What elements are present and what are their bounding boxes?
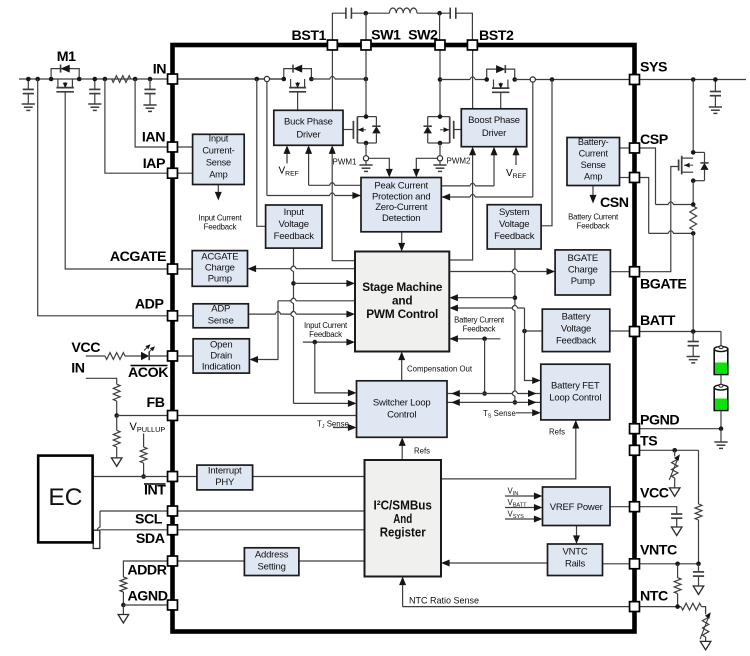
node PGND [719, 426, 724, 431]
wire SLC-BFLC line2 [447, 401, 541, 403]
wire VNTC rails to pin [603, 563, 631, 565]
resistor R-FB-top [113, 384, 120, 401]
svg-text:FB: FB [146, 395, 164, 411]
wire IN pullup source [86, 378, 117, 384]
node SW2 phase [438, 77, 443, 82]
resistor R-battery-sense [690, 206, 697, 230]
svg-text:Amp: Amp [584, 172, 602, 182]
node PWM1 [363, 156, 368, 161]
svg-text:NTC Ratio Sense: NTC Ratio Sense [409, 596, 479, 606]
wire SYS rail [515, 79, 746, 81]
wire battery link [720, 375, 722, 386]
svg-text:Battery FET: Battery FET [551, 381, 600, 392]
wire VREF power to VCC pin [610, 506, 630, 508]
op-amp U-state-machine [355, 252, 449, 352]
wire PWM2 control from state machine [449, 151, 472, 260]
svg-text:Peak Current: Peak Current [374, 181, 428, 192]
node SVF on refs line [513, 400, 518, 405]
capacitor C-IN2 [94, 79, 96, 89]
pin ACGATE [168, 264, 178, 274]
wire SW2 phase segment [440, 77, 487, 80]
pin AGND [168, 600, 178, 610]
resistor R-TS-div [695, 504, 702, 520]
node IN rail d [148, 77, 153, 82]
wire AGND drop [122, 605, 124, 615]
wire FET to sense resistor [692, 181, 694, 205]
wire NTC ratio sense [403, 606, 630, 608]
svg-text:IN: IN [71, 361, 84, 377]
thermistor RT-TS [674, 450, 676, 456]
pin TS [630, 445, 640, 455]
wire EC SDA [101, 529, 173, 531]
svg-text:Amp: Amp [209, 170, 227, 180]
wire IAP internal [173, 172, 193, 174]
wire IAN sense [135, 79, 172, 147]
pin BATT [630, 327, 640, 337]
wire TS sense arrow [516, 412, 537, 414]
wire cap to SW1 top node [351, 12, 389, 14]
wire cap to BST2 riser [456, 13, 473, 45]
resistor R-pullup [140, 447, 147, 463]
resistor R-NTC [681, 603, 701, 610]
transistor Q-boost-high [487, 69, 515, 79]
svg-text:Interrupt: Interrupt [208, 466, 242, 477]
svg-text:IAP: IAP [143, 156, 165, 172]
wire VCC to ACOK [86, 355, 105, 357]
pin BST1 [327, 40, 337, 50]
wire FB external [117, 415, 173, 417]
wire CSP internal [620, 147, 631, 149]
wire PWM1 to peak-current [369, 158, 390, 171]
svg-text:Boost Phase: Boost Phase [468, 115, 520, 126]
transistor M1 [51, 69, 79, 79]
node SYS cap [713, 77, 718, 82]
op-amp U-address-setting [244, 548, 299, 576]
wire R-pullup to INT [143, 463, 145, 477]
svg-text:Battery-: Battery- [578, 137, 609, 147]
svg-text:PWM Control: PWM Control [366, 307, 438, 321]
svg-text:CSN: CSN [600, 195, 629, 211]
wire inductor to BST2 cap [417, 12, 450, 14]
svg-text:Driver: Driver [296, 130, 320, 141]
svg-text:Rails: Rails [565, 559, 586, 570]
wire ACOK internal [173, 355, 194, 357]
EC stub tab [93, 530, 100, 548]
svg-text:Input: Input [284, 207, 305, 218]
wire BST2 riser internal [472, 50, 474, 109]
pin ADDR [168, 556, 178, 566]
svg-text:Charge: Charge [205, 263, 235, 274]
ground C-IN2 [88, 103, 101, 105]
svg-text:Input Current: Input Current [304, 321, 348, 330]
wire Vpullup stub [143, 434, 145, 448]
op-amp U-acgate-pump [192, 251, 247, 287]
wire TS network [639, 449, 699, 451]
ground NTC [700, 641, 711, 650]
wire buck gate riser [297, 92, 299, 111]
svg-text:SDA: SDA [136, 531, 165, 547]
wire IVF output [291, 248, 294, 403]
ground PWM2 [439, 161, 441, 165]
svg-text:Battery Current: Battery Current [454, 316, 505, 325]
wire CSP tap [639, 148, 656, 205]
wire BVF to SM [524, 308, 526, 331]
svg-text:ACOK: ACOK [128, 365, 169, 381]
wire BGATE CP output [610, 271, 630, 273]
pin SYS [630, 75, 640, 85]
svg-text:Feedback: Feedback [494, 231, 535, 242]
wire zero-cross sense [532, 82, 534, 197]
op-amp U-open-drain [193, 339, 249, 373]
pin PGND [630, 424, 640, 434]
wire ADDR resistor chain [123, 561, 172, 577]
ground C-IN3 [143, 104, 156, 106]
wire VSYS arrow [505, 518, 538, 520]
wire battery current feedback to SM [454, 338, 501, 340]
ground AGND [118, 615, 128, 624]
capacitor C-IN1 [27, 79, 29, 89]
svg-text:Sense: Sense [581, 160, 606, 170]
pin CSP [630, 143, 640, 153]
node bcf on line1 [482, 391, 487, 396]
thermistor RT-NTC [702, 615, 708, 637]
svg-text:Detection: Detection [382, 213, 420, 224]
resistor R-sense input [112, 76, 131, 83]
svg-text:Drain: Drain [210, 351, 232, 362]
svg-text:PWM1: PWM1 [333, 158, 358, 167]
resistor R-ADDR [120, 577, 127, 592]
op-amp U-switcher-loop [357, 381, 448, 438]
wire EC INT [93, 476, 173, 478]
pin INT [168, 472, 178, 482]
wire ACGATE internal [173, 268, 193, 270]
op-amp U-battery-current-sense [567, 138, 620, 186]
svg-text:Feedback: Feedback [309, 330, 342, 339]
wire input current feedback to SM [303, 341, 351, 343]
op-amp U-vref-power [543, 487, 611, 526]
wire NTC rail ext [639, 606, 681, 608]
wire sense to BATT [692, 233, 694, 331]
wire SVF branch to SM [454, 297, 515, 299]
svg-text:SW1: SW1 [371, 28, 401, 44]
node sense res bottom [691, 231, 696, 236]
wire INT internal a [173, 476, 197, 478]
svg-text:Protection and: Protection and [372, 191, 430, 202]
wire input current feedback to SLC [315, 342, 353, 393]
wire SDA internal [173, 529, 365, 531]
svg-text:Feedback: Feedback [274, 231, 315, 242]
node IAP tap [103, 77, 108, 82]
EC box [38, 456, 92, 543]
node battery current feedback [482, 337, 487, 342]
svg-text:Stage Machine: Stage Machine [362, 280, 443, 294]
svg-text:IAN: IAN [142, 130, 165, 146]
wire ADDR internal b [299, 560, 365, 562]
wire divider to VNTC [698, 520, 700, 564]
node IVF tap [254, 77, 259, 82]
wire SW1 phase segment [311, 76, 366, 79]
svg-text:ADDR: ADDR [127, 563, 166, 579]
svg-text:Setting: Setting [258, 562, 286, 573]
wire ADDR internal a [173, 560, 245, 562]
wire SYS to SVF [541, 80, 552, 226]
wire VNTC rails to I2C [445, 562, 547, 564]
wire VREF power to VNTC rails [576, 526, 578, 540]
node IN rail a [26, 77, 31, 82]
wire compensation out [401, 356, 403, 381]
wire PWM2 to peak-current [416, 158, 437, 171]
pin ACOK [168, 351, 178, 361]
node BVF tee [522, 329, 527, 334]
wire IVF riser [257, 79, 266, 226]
pin IAP [168, 168, 178, 178]
op-amp U-peak-current [361, 178, 441, 232]
svg-text:Switcher Loop: Switcher Loop [373, 398, 431, 409]
node input current feedback [313, 340, 318, 345]
wire IAN internal [173, 146, 193, 148]
svg-text:INT: INT [144, 483, 166, 499]
ground PGND [720, 429, 722, 442]
wire BVF to battery FET loop [525, 331, 537, 381]
wire boost-low gate [454, 129, 462, 131]
wire BPD mid input [308, 150, 310, 186]
node sense res top [691, 202, 696, 207]
wire ADP sense output [248, 311, 350, 314]
svg-text:Sense: Sense [208, 316, 234, 327]
pin IN [168, 74, 178, 84]
svg-text:NTC: NTC [640, 589, 668, 605]
svg-text:VREF Power: VREF Power [550, 502, 603, 513]
battery cell 2 [714, 388, 728, 411]
svg-text:Voltage: Voltage [561, 324, 591, 335]
svg-text:AGND: AGND [128, 589, 168, 605]
svg-text:VNTC: VNTC [640, 543, 677, 559]
op-amp U-bgate-pump [555, 250, 610, 295]
wire PGND rail [639, 428, 721, 430]
resistor R-FB-bot [116, 416, 118, 431]
wire ACGATE CP input [252, 266, 355, 269]
wire boost source to PWM2 [439, 143, 441, 156]
pin SCL [168, 506, 178, 516]
wire R to FB node [116, 401, 118, 416]
svg-text:and: and [392, 294, 412, 308]
svg-text:SYS: SYS [640, 60, 667, 76]
wire BATT to battery [720, 332, 722, 346]
svg-text:BGATE: BGATE [640, 277, 686, 293]
svg-text:Loop Control: Loop Control [549, 393, 601, 404]
pin IAN [168, 142, 178, 152]
svg-text:Battery: Battery [562, 312, 591, 323]
svg-text:BGATE: BGATE [568, 253, 599, 264]
wire boost gate riser [500, 92, 502, 109]
capacitor C-BATT [692, 332, 694, 342]
wire ICSA feedback arrow [217, 185, 219, 196]
op-amp U-input-current-sense [193, 134, 245, 184]
svg-text:Buck Phase: Buck Phase [284, 117, 333, 128]
svg-text:Register: Register [380, 525, 426, 540]
node NTC [675, 604, 680, 609]
wire BST1 riser internal [331, 50, 333, 111]
wire CSN tap [639, 178, 649, 234]
node VNTC a [675, 562, 680, 567]
op-amp U-vntc-rails [548, 544, 603, 576]
svg-text:SCL: SCL [135, 512, 163, 528]
ground C-VCC [671, 527, 682, 536]
svg-text:Refs: Refs [414, 447, 430, 456]
wire SVF output [512, 249, 515, 402]
svg-text:Pump: Pump [208, 274, 232, 285]
capacitor CBST2 [449, 8, 451, 19]
svg-text:PGND: PGND [640, 413, 679, 429]
op-amp U-boost-driver [461, 109, 526, 147]
ground FB divider [111, 458, 122, 467]
svg-text:PWM2: PWM2 [447, 157, 472, 166]
svg-text:Address: Address [255, 550, 289, 561]
pin SDA [168, 525, 178, 535]
svg-text:ACGATE: ACGATE [110, 249, 166, 265]
wire BATT rail [639, 331, 721, 333]
pin VNTC [630, 559, 640, 569]
wire VCC cap [639, 507, 677, 514]
svg-text:Open: Open [210, 340, 232, 351]
wire TJ sense arrow [333, 427, 352, 429]
pin BGATE [630, 267, 640, 277]
wire battery FET gate [639, 167, 678, 272]
wire BVF to BATT pin [610, 330, 630, 332]
capacitor C-IN3 [149, 79, 151, 89]
capacitor CBST1 [345, 8, 347, 19]
op-amp U-i2c [365, 460, 442, 577]
svg-text:Input Current: Input Current [199, 214, 243, 223]
wire SW2 riser top [439, 13, 441, 45]
svg-text:SW2: SW2 [408, 28, 438, 44]
wire BGATE CP input [449, 269, 551, 272]
node IVF to SM [291, 281, 296, 286]
svg-text:ADP: ADP [135, 297, 164, 313]
svg-text:Indication: Indication [202, 362, 241, 373]
wire SW1 riser internal [365, 50, 367, 117]
svg-text:VNTC: VNTC [562, 547, 587, 558]
op-amp U-buck-driver [274, 110, 343, 145]
svg-text:Current: Current [579, 149, 609, 159]
svg-text:Driver: Driver [482, 128, 506, 139]
inductor L1 [389, 8, 417, 13]
ground C-VNTC [693, 586, 704, 595]
wire battery to PGND [720, 411, 722, 429]
op-amp U-battery-voltage-feedback [542, 309, 610, 352]
wire EC SCL [100, 510, 173, 512]
svg-text:Refs: Refs [549, 428, 565, 437]
wire IN rail (adapter input) [19, 78, 284, 80]
wire VNTC rail ext [639, 563, 699, 565]
ground PWM1 [365, 161, 367, 165]
op-amp U-adp-sense [193, 304, 248, 328]
wire battery current feedback drop [484, 339, 486, 394]
transistor Q-buck-low [357, 116, 366, 118]
node SW1 phase [364, 77, 369, 82]
IC boundary box [173, 45, 635, 632]
svg-text:System: System [499, 207, 530, 218]
wire BST1 riser to top rail [332, 13, 346, 45]
node zero-cross tap [530, 77, 535, 82]
svg-text:Feedback: Feedback [556, 336, 597, 347]
wire peak-current to state machine [401, 232, 403, 247]
svg-text:BATT: BATT [640, 313, 676, 329]
svg-text:ACGATE: ACGATE [201, 252, 238, 263]
svg-text:ADP: ADP [211, 304, 230, 315]
svg-text:TS: TS [640, 434, 657, 450]
wire refs to SLC [401, 442, 403, 461]
transistor Q-boost-low [440, 116, 450, 118]
wire SW1 riser top [365, 13, 367, 45]
ground TS [669, 488, 680, 497]
wire BCSA feedback arrow [592, 186, 594, 199]
wire AGND to pin [123, 604, 172, 606]
node VNTC b [696, 562, 701, 567]
wire ODI input [278, 298, 355, 301]
wire refs to BFLC [441, 424, 576, 479]
pin SW1 [361, 40, 371, 50]
transistor Q-battery-fet [682, 157, 694, 159]
wire INT internal b [253, 476, 365, 478]
svg-text:Control: Control [387, 410, 416, 421]
svg-text:Compensation Out: Compensation Out [407, 365, 473, 374]
wire BVF output [525, 330, 543, 332]
wire VREF boost stub [515, 151, 517, 165]
transistor Q-buck-high [284, 69, 312, 79]
node BATT cap [691, 329, 696, 334]
wire R-ADDR to AGND [122, 592, 124, 605]
wire VBATT arrow [505, 507, 538, 509]
pin SW2 [435, 40, 445, 50]
svg-text:Voltage: Voltage [499, 219, 529, 230]
svg-text:BST2: BST2 [479, 28, 514, 44]
wire FB internal [173, 415, 357, 417]
node SYS sense tap [550, 77, 555, 82]
node PC sense tap [264, 76, 269, 81]
node above SW1 [364, 11, 369, 16]
capacitor C-VNTC [698, 564, 700, 572]
pin FB [168, 411, 178, 421]
wire SLC-BFLC line1 [447, 391, 541, 394]
svg-text:Input: Input [209, 134, 229, 144]
node IN rail c [93, 77, 98, 82]
svg-text:Sense: Sense [206, 158, 231, 168]
LED D-ACOK [141, 352, 149, 360]
wire VREF buck stub [286, 150, 288, 164]
svg-text:VCC: VCC [640, 486, 669, 502]
node SYS fet [691, 77, 696, 82]
svg-text:Voltage: Voltage [279, 219, 309, 230]
svg-text:Charge: Charge [568, 265, 598, 276]
node IAN tap [133, 77, 138, 82]
ground C-SYS [709, 106, 722, 108]
node PWM2 [437, 156, 442, 161]
ground C-BATT [687, 356, 700, 358]
pin CSN [630, 173, 640, 183]
wire VIN arrow [505, 495, 538, 497]
svg-text:Zero-Current: Zero-Current [375, 202, 428, 213]
wire SCL internal [173, 510, 365, 512]
wire SW2 riser internal [439, 50, 441, 117]
wire BPD2 mid input [441, 183, 494, 186]
svg-text:Feedback: Feedback [577, 222, 610, 231]
ground C-IN1 [22, 103, 35, 105]
pin NTC [630, 602, 640, 612]
capacitor C-VCC [671, 513, 682, 515]
wire CSN internal [620, 177, 631, 179]
svg-text:EC: EC [48, 484, 82, 511]
